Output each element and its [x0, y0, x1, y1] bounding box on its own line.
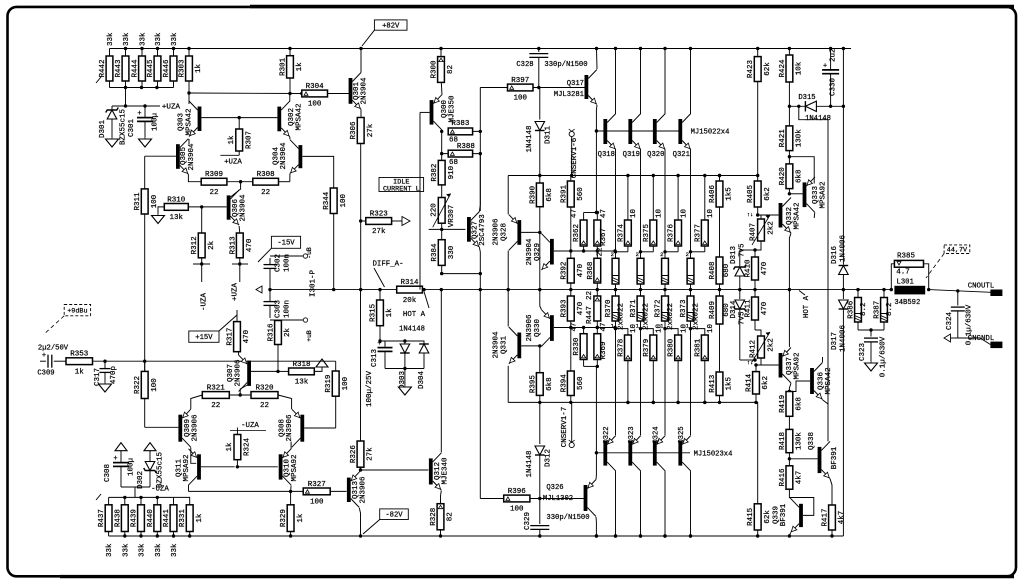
- wire R313 bottom +UZA: [238, 262, 241, 265]
- wire Q302 collector up: [289, 94, 291, 102]
- wire Q330 emitter: [540, 290, 542, 310]
- svg-text:2k2: 2k2: [768, 338, 776, 352]
- resistor R317 470: [234, 322, 241, 352]
- power transistor Q324: [653, 441, 657, 466]
- svg-text:R367: R367: [600, 228, 608, 246]
- resistor R309 22: [201, 178, 227, 185]
- svg-text:1N4148: 1N4148: [526, 125, 534, 152]
- resistor R441: [170, 505, 177, 532]
- resistor R444: [139, 56, 146, 81]
- svg-text:-UZA: -UZA: [151, 486, 169, 494]
- resistor R393 470: [567, 296, 574, 321]
- svg-text:C309: C309: [37, 370, 54, 378]
- svg-text:I301-P: I301-P: [310, 269, 318, 297]
- resistor R376 10: [675, 220, 682, 246]
- wire +82V top rail: [110, 48, 852, 50]
- transistor Q306 2N3904: [227, 195, 231, 219]
- svg-text:47: 47: [571, 209, 579, 218]
- resistor R313 470: [236, 233, 243, 258]
- svg-text:1N4148: 1N4148: [399, 326, 425, 334]
- wire Q304 base to R344: [302, 156, 333, 188]
- svg-text:2xR022: 2xR022: [667, 303, 675, 330]
- wire Q328 emitter up: [507, 176, 509, 215]
- svg-text:R320: R320: [255, 384, 274, 392]
- resistor R378 10: [625, 335, 632, 361]
- resistor R328 82: [437, 504, 444, 530]
- svg-text:Q331: Q331: [500, 336, 508, 355]
- svg-text:33k: 33k: [139, 543, 147, 557]
- wire Q302-Q304 emitter-collector: [289, 137, 291, 139]
- wire Q313 emitter: [359, 470, 360, 472]
- svg-text:R378: R378: [617, 339, 625, 357]
- svg-text:C330: C330: [830, 77, 838, 96]
- svg-text:33k: 33k: [171, 543, 179, 557]
- wire output bus right: [422, 289, 891, 291]
- svg-text:Q338: Q338: [808, 432, 816, 450]
- wire Q329 base-R392 line: [554, 250, 615, 252]
- svg-text:BZX55c15: BZX55c15: [120, 109, 128, 146]
- svg-text:C329: C329: [524, 512, 532, 530]
- svg-text:R319: R319: [325, 375, 333, 393]
- svg-text:R315: R315: [370, 303, 378, 322]
- svg-text:R416: R416: [779, 468, 787, 487]
- svg-text:100: 100: [310, 499, 324, 507]
- svg-text:D313: D313: [730, 245, 738, 264]
- capacitor C330 2u2: [830, 49, 832, 70]
- ground under C317: [104, 382, 106, 384]
- resistor R446: [170, 56, 177, 81]
- svg-text:R439: R439: [131, 509, 139, 527]
- svg-text:33k: 33k: [155, 32, 163, 46]
- svg-text:R409: R409: [709, 301, 717, 319]
- svg-text:1N4148: 1N4148: [526, 450, 534, 477]
- svg-text:1k5: 1k5: [726, 187, 734, 201]
- svg-text:2SC4793: 2SC4793: [479, 214, 487, 246]
- svg-text:D311: D311: [545, 126, 553, 145]
- svg-text:R443: R443: [115, 59, 123, 78]
- svg-text:C303: C303: [275, 299, 283, 318]
- svg-text:R330: R330: [573, 337, 581, 356]
- wire Q318 base bus: [596, 130, 679, 132]
- svg-text:6k2: 6k2: [764, 187, 772, 201]
- svg-text:62k: 62k: [764, 510, 772, 524]
- svg-text:MJE340: MJE340: [442, 457, 450, 485]
- svg-text:R442: R442: [99, 59, 107, 77]
- svg-text:100: 100: [340, 194, 348, 208]
- svg-text:6k8: 6k8: [796, 169, 804, 183]
- svg-text:2: 2: [636, 251, 639, 258]
- svg-text:R310: R310: [167, 196, 186, 204]
- svg-text:R413: R413: [709, 374, 717, 393]
- capacitor C328 330p: [538, 49, 540, 53]
- resistor R447 22: [594, 296, 601, 321]
- svg-text:100µ: 100µ: [152, 113, 160, 131]
- wire Q332 base: [758, 214, 779, 216]
- svg-text:R391: R391: [560, 185, 568, 204]
- power transistor Q320: [653, 119, 657, 144]
- wire Q337 base: [756, 364, 779, 366]
- svg-text:R329: R329: [280, 509, 288, 527]
- resistor R353 1k: [66, 358, 93, 365]
- svg-text:R381: R381: [694, 338, 702, 357]
- svg-text:2N3906: 2N3906: [526, 314, 534, 342]
- resistor R397 100: [508, 84, 534, 91]
- svg-text:100: 100: [308, 101, 322, 109]
- svg-text:R353: R353: [70, 351, 89, 359]
- svg-text:R395: R395: [529, 375, 537, 394]
- wire diff bottom join: [385, 368, 424, 370]
- svg-text:10k: 10k: [796, 61, 804, 75]
- svg-text:R327: R327: [308, 481, 326, 489]
- svg-text:2N3906: 2N3906: [192, 414, 200, 442]
- wire Q306 base line: [188, 206, 226, 208]
- transistor Q327 2SC4793: [467, 217, 471, 242]
- wire lower join 366: [584, 365, 597, 367]
- svg-text:33k: 33k: [122, 543, 130, 557]
- transistor Q312 MJE340: [429, 458, 433, 484]
- resistor R392 470: [567, 258, 574, 283]
- svg-text:R387: R387: [874, 301, 882, 319]
- svg-text:Q319: Q319: [623, 151, 640, 159]
- svg-text:-uB: -uB: [306, 247, 313, 259]
- svg-text:R374: R374: [617, 224, 625, 243]
- svg-text:+UZA: +UZA: [162, 104, 181, 112]
- transistor Q336 MPSA42: [810, 368, 814, 394]
- svg-text:R373: R373: [680, 299, 688, 318]
- svg-text:2N3906: 2N3906: [360, 476, 368, 504]
- svg-text:R410: R410: [745, 259, 753, 278]
- svg-text:R394: R394: [560, 374, 568, 393]
- svg-text:MJL1302: MJL1302: [543, 495, 573, 503]
- svg-text:R316: R316: [268, 323, 276, 342]
- svg-text:R321: R321: [207, 384, 226, 392]
- svg-text:MJL3281: MJL3281: [554, 91, 584, 99]
- wire Q301 emitter: [360, 110, 362, 118]
- transistor Q331 2N3904: [517, 333, 521, 359]
- svg-text:2N3904: 2N3904: [240, 194, 248, 222]
- resistor R362 47: [580, 220, 587, 246]
- svg-text:+82V: +82V: [382, 22, 400, 30]
- resistor R384 330: [438, 240, 445, 266]
- svg-text:47: 47: [600, 209, 608, 218]
- wire Q300 base: [420, 111, 430, 113]
- svg-text:R369: R369: [600, 341, 608, 359]
- diode D316 1N4006: [842, 106, 844, 264]
- svg-text:D312: D312: [545, 449, 553, 467]
- svg-text:R420: R420: [779, 167, 787, 186]
- svg-text:R328: R328: [430, 508, 438, 526]
- svg-text:R438: R438: [114, 509, 122, 527]
- svg-text:R383: R383: [451, 120, 470, 128]
- svg-text:Q330: Q330: [534, 319, 542, 338]
- resistor R439: [138, 505, 145, 532]
- resistor R408 680: [716, 257, 723, 284]
- svg-text:R414: R414: [746, 373, 754, 392]
- svg-text:C317: C317: [94, 368, 102, 386]
- wire R421 jog: [789, 157, 814, 184]
- svg-text:100: 100: [151, 378, 159, 392]
- svg-text:+: +: [823, 62, 827, 70]
- resistor R330 47: [580, 334, 587, 360]
- svg-text:10: 10: [680, 208, 688, 218]
- svg-text:C323: C323: [859, 343, 867, 362]
- bottom rail dots: [595, 534, 598, 537]
- wire Q327 emitter: [478, 247, 481, 289]
- resistor R405 6k2: [754, 181, 761, 207]
- wire Q313 collector: [359, 508, 360, 536]
- trimmer R412 2k2: [758, 336, 765, 358]
- capacitor C309: [40, 360, 46, 362]
- svg-text:Q318: Q318: [598, 151, 615, 159]
- svg-text:Q317: Q317: [567, 80, 584, 88]
- wire Q333 collector stub: [813, 213, 816, 218]
- power transistor Q319: [628, 119, 632, 144]
- diode D303: [404, 341, 406, 344]
- svg-text:62k: 62k: [764, 62, 772, 76]
- resistor R420 6k8: [786, 164, 793, 189]
- transistor Q337 MPSA92: [779, 353, 783, 378]
- resistor R416 4k7: [786, 466, 793, 489]
- transistor Q317 MJL3281: [585, 75, 589, 99]
- wire Q336 collector stub: [822, 357, 824, 362]
- wire input node: [93, 360, 336, 362]
- resistor R367 47: [594, 220, 601, 246]
- transistor Q330 2N3906: [550, 315, 554, 341]
- svg-text:+: +: [42, 352, 46, 360]
- power transistor Q321: [678, 119, 682, 144]
- svg-text:D314: D314: [730, 300, 738, 319]
- wire bottom base bus: [596, 452, 690, 454]
- resistor R307 1k: [236, 129, 243, 151]
- svg-text:+9dBu: +9dBu: [67, 308, 87, 316]
- svg-text:27k: 27k: [367, 447, 375, 461]
- svg-text:R311: R311: [134, 192, 142, 211]
- svg-text:34B592: 34B592: [894, 299, 920, 307]
- svg-text:130k: 130k: [796, 129, 804, 148]
- svg-text:680: 680: [723, 263, 731, 277]
- svg-text:330p/N1500: 330p/N1500: [546, 514, 589, 522]
- svg-text:6k2: 6k2: [762, 376, 770, 390]
- resistor R324 1k: [234, 435, 241, 460]
- svg-text:R314: R314: [401, 279, 420, 287]
- connector CNSERV1-6: [569, 131, 574, 136]
- transistor Q329 2N3904: [550, 239, 554, 265]
- power resistor R372 2xR022: [662, 258, 669, 284]
- svg-text:4k7: 4k7: [838, 511, 846, 525]
- svg-text:R419: R419: [779, 395, 787, 413]
- wire Q311 collector: [188, 485, 190, 491]
- svg-text:R309: R309: [205, 171, 223, 179]
- wire Q328 base: [521, 231, 540, 233]
- svg-text:10: 10: [707, 208, 715, 218]
- svg-text:C313: C313: [371, 349, 379, 368]
- svg-text:560: 560: [577, 376, 585, 390]
- transistor Q305 2N3904: [176, 144, 180, 169]
- svg-text:-15V: -15V: [277, 240, 295, 248]
- svg-text:-82V: -82V: [385, 512, 403, 520]
- transistor Q338 BF391: [818, 447, 822, 473]
- wire Q331 emitter down: [507, 366, 509, 403]
- wire Q310 emitter: [290, 442, 292, 449]
- box -82V: [380, 509, 409, 520]
- svg-text:CNOUTL: CNOUTL: [968, 283, 995, 291]
- svg-text:82: 82: [447, 65, 455, 74]
- resistor R375 10: [650, 220, 657, 246]
- up arrow R318: [316, 359, 328, 367]
- svg-text:MJ15023x4: MJ15023x4: [694, 451, 733, 459]
- svg-text:R300: R300: [431, 60, 439, 79]
- connector CNGNDL: [944, 334, 951, 342]
- svg-text:MPSA42: MPSA42: [825, 367, 833, 394]
- svg-text:R406: R406: [709, 185, 717, 204]
- svg-text:2xR022: 2xR022: [693, 303, 701, 330]
- svg-text:MJ15022x4: MJ15022x4: [691, 129, 730, 137]
- svg-text:R324: R324: [244, 438, 252, 457]
- ground under R310: [157, 214, 159, 216]
- svg-text:33k: 33k: [155, 543, 163, 557]
- resistor R308 22: [253, 178, 279, 185]
- svg-text:C328: C328: [516, 61, 533, 69]
- svg-text:R441: R441: [163, 509, 171, 528]
- svg-text:1k5: 1k5: [726, 377, 734, 391]
- resistor R314 20k: [397, 286, 423, 293]
- svg-text:+: +: [377, 340, 381, 348]
- svg-text:R323: R323: [370, 210, 389, 218]
- wire Q303 base to R307: [202, 117, 240, 119]
- wire D315 jog down: [799, 106, 828, 441]
- svg-text:+UZA: +UZA: [224, 159, 242, 167]
- box +82V: [374, 20, 407, 30]
- svg-text:910: 910: [448, 165, 456, 179]
- svg-text:13k: 13k: [295, 379, 309, 387]
- wire Q339 emitter: [789, 533, 790, 536]
- svg-text:2: 2: [686, 251, 689, 258]
- svg-text:+15V: +15V: [195, 334, 213, 342]
- svg-text:R371: R371: [630, 299, 638, 318]
- svg-text:R317: R317: [227, 328, 235, 346]
- transistor Q302 MPSA42: [277, 107, 281, 132]
- svg-text:R446: R446: [163, 59, 171, 78]
- transistor Q313 2N3906: [347, 478, 351, 502]
- svg-text:2: 2: [660, 251, 663, 258]
- svg-text:VR307: VR307: [448, 205, 456, 228]
- svg-text:L301: L301: [897, 278, 914, 286]
- resistor R329 1k: [287, 505, 294, 532]
- svg-text:-UZA: -UZA: [201, 293, 209, 312]
- svg-text:2N3906: 2N3906: [235, 359, 243, 387]
- zener D313 7V5: [740, 249, 755, 251]
- svg-text:2N3904: 2N3904: [280, 142, 288, 170]
- power transistor Q318: [603, 119, 607, 144]
- transistor Q307 2N3906: [247, 361, 251, 386]
- svg-text:R377: R377: [694, 224, 702, 242]
- wire Q312 emitter: [440, 491, 443, 504]
- svg-text:22: 22: [210, 189, 219, 197]
- resistor R319 100: [332, 371, 339, 396]
- wire Q309 base: [145, 426, 179, 428]
- svg-text:470: 470: [761, 261, 769, 275]
- svg-text:33k: 33k: [140, 32, 148, 46]
- resistor R310 13k: [164, 204, 188, 211]
- resistor R321 22: [202, 392, 229, 399]
- svg-text:220: 220: [431, 203, 439, 217]
- svg-text:+uB: +uB: [306, 330, 313, 342]
- box +15V: [189, 331, 219, 342]
- capacitor C324 0.1u/630V: [956, 289, 959, 292]
- svg-text:BF391: BF391: [780, 503, 788, 526]
- resistor R323 27k: [366, 218, 392, 225]
- svg-text:D304: D304: [418, 371, 426, 390]
- wire R362/R367 top join: [584, 212, 598, 214]
- wire bottom sense bus: [508, 401, 719, 403]
- wire Q312 collector: [440, 290, 442, 453]
- resistor R315 1k: [377, 300, 384, 326]
- svg-text:R312: R312: [191, 236, 199, 254]
- svg-text:R318: R318: [292, 361, 310, 369]
- svg-text:Q321: Q321: [673, 151, 690, 159]
- power resistor R370 2xR022: [612, 258, 619, 284]
- svg-text:R390: R390: [529, 185, 537, 204]
- trimmer VR307 220: [438, 198, 445, 224]
- svg-text:R322: R322: [134, 376, 142, 394]
- resistor R379 10: [650, 335, 657, 361]
- wire Q326 collector: [595, 517, 597, 536]
- wire Q307 base: [251, 370, 278, 372]
- svg-text:R362: R362: [573, 224, 581, 242]
- svg-text:27k: 27k: [372, 228, 386, 236]
- resistor R415 62k: [754, 504, 761, 530]
- svg-text:R408: R408: [709, 261, 717, 279]
- wire Q338 emitter: [830, 479, 832, 505]
- svg-text:R331: R331: [179, 509, 187, 528]
- wire Q333 base: [789, 193, 802, 195]
- wire Q301 base: [328, 93, 349, 95]
- resistor R311 100: [141, 189, 148, 214]
- svg-text:6k8: 6k8: [546, 188, 554, 202]
- svg-text:C308: C308: [104, 464, 112, 482]
- transistor Q304 2N3904: [299, 145, 303, 168]
- wire bias line: [189, 490, 304, 492]
- svg-text:R307: R307: [246, 131, 254, 149]
- capacitor C313 100u/25V: [380, 340, 405, 342]
- svg-text:82: 82: [447, 512, 455, 521]
- svg-text:D315: D315: [798, 94, 815, 102]
- svg-text:1k: 1k: [226, 442, 234, 452]
- resistor R443: [122, 56, 129, 81]
- resistor R301: [287, 56, 294, 78]
- wire -82V bottom rail: [109, 535, 844, 537]
- svg-text:R384: R384: [431, 243, 439, 262]
- svg-text:100: 100: [342, 376, 350, 390]
- svg-text:2k: 2k: [284, 328, 292, 338]
- capacitor C301 100u: [144, 106, 146, 118]
- svg-text:0.1µ/630V: 0.1µ/630V: [880, 336, 888, 377]
- resistor R306 27k: [357, 118, 364, 144]
- svg-text:R313: R313: [229, 236, 237, 255]
- svg-text:4k7: 4k7: [796, 471, 804, 485]
- svg-text:-UZA: -UZA: [241, 422, 259, 430]
- resistor R385 4.7: [894, 260, 923, 267]
- power transistor Q325: [678, 441, 682, 466]
- zener D301 BZX55c15: [111, 106, 113, 110]
- svg-text:HOT A: HOT A: [803, 295, 811, 318]
- svg-text:560: 560: [577, 187, 585, 201]
- svg-text:Q324: Q324: [652, 426, 660, 443]
- resistor R369 47: [594, 334, 601, 360]
- svg-text:1k: 1k: [196, 513, 204, 523]
- box 44,7V: [944, 245, 970, 254]
- resistor R445: [154, 56, 161, 81]
